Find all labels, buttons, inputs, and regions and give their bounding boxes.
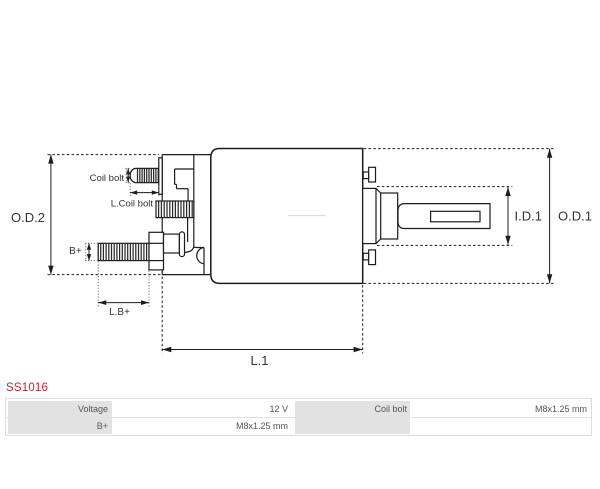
svg-text:I.D.1: I.D.1	[515, 209, 542, 224]
svg-text:L.Coil bolt: L.Coil bolt	[111, 199, 154, 210]
svg-text:O.D.2: O.D.2	[11, 210, 45, 225]
svg-text:O.D.1: O.D.1	[558, 209, 592, 224]
svg-text:L.B+: L.B+	[109, 307, 130, 318]
svg-text:Coil bolt: Coil bolt	[90, 173, 125, 184]
svg-text:B+: B+	[69, 246, 82, 257]
svg-text:L.1: L.1	[250, 353, 268, 368]
